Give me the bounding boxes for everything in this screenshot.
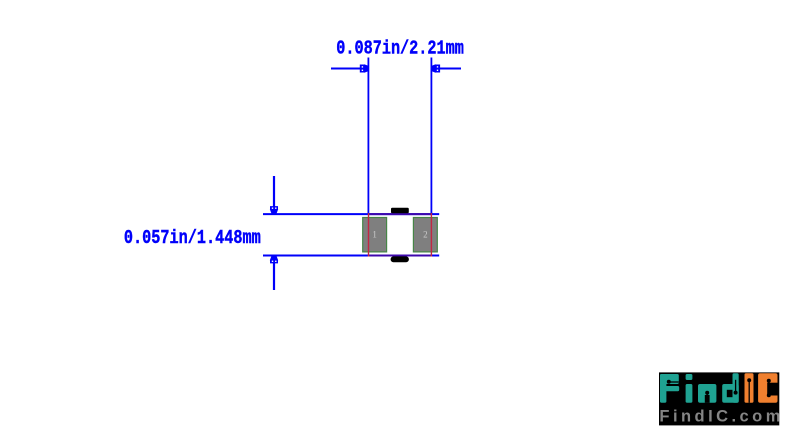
- polarity bar top (black): [391, 208, 409, 214]
- svg-text:0.087in/2.21mm: 0.087in/2.21mm: [336, 38, 464, 60]
- body outline right (red vertical): [430, 213, 432, 256]
- polarity bar bottom (black): [391, 256, 409, 262]
- dimension arrow left (points right): [331, 64, 369, 72]
- logo letter n (teal): [698, 384, 716, 403]
- logo letter n trace slot: [705, 395, 710, 403]
- dimension arrow right (points left): [431, 64, 461, 72]
- extension line left (blue vertical): [367, 58, 369, 214]
- extension line right (blue vertical): [430, 58, 432, 214]
- pad 2: [413, 218, 437, 252]
- logo letter d trace: [735, 380, 737, 392]
- logo letter d (teal): [722, 373, 739, 403]
- pad 1: [363, 218, 387, 252]
- dimension arrow top (points down): [270, 176, 278, 214]
- logo letter i (teal): [686, 374, 693, 403]
- svg-text:2: 2: [423, 229, 428, 239]
- logo letter C (orange): [758, 373, 777, 403]
- logo background: [659, 372, 779, 425]
- logo letter C opening: [767, 383, 778, 396]
- svg-text:1: 1: [372, 229, 377, 239]
- dimension arrow bottom (points up): [270, 256, 278, 290]
- courtyard top line (blue horizontal): [263, 213, 439, 215]
- logo letter C trace: [768, 381, 770, 395]
- logo letter I (orange): [745, 373, 754, 403]
- logo letter I trace: [748, 380, 750, 402]
- FindIC logo: [659, 372, 780, 425]
- svg-text:0.057in/1.448mm: 0.057in/1.448mm: [124, 227, 261, 249]
- logo letter d counter: [727, 390, 733, 397]
- body outline top (purple overlap segment): [368, 213, 432, 215]
- logo letter F (teal): [660, 374, 679, 403]
- body outline left (red vertical): [368, 213, 370, 256]
- logo letter F trace: [668, 381, 679, 383]
- body outline bottom (purple overlap segment): [368, 255, 432, 257]
- courtyard bottom line (blue horizontal): [263, 255, 439, 257]
